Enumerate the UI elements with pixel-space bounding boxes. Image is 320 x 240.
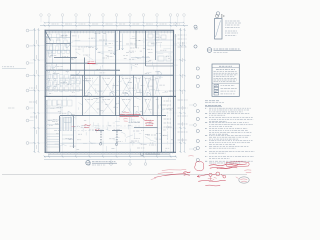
interior wall vertical x59 stair [59, 116, 61, 153]
exterior wall top [45, 30, 174, 32]
general notes numbered paragraphs [205, 108, 254, 163]
bottom dimension strings [44, 156, 177, 160]
interior wall vertical x157 lower corridor [157, 96, 159, 152]
upper-middle partition x103b [102, 35, 104, 63]
second detail title below plan right [140, 152, 160, 156]
red markup tick near plan corner [189, 155, 194, 157]
legend box title [212, 66, 239, 69]
red markup flow sketch cluster [197, 172, 226, 182]
interior wall horizontal y96 rooms mid [45, 95, 177, 97]
interior wall vertical x153 rooms [152, 75, 154, 115]
interior wall horizontal y127 partial [134, 126, 158, 128]
interior wall vertical x155 upper [155, 30, 157, 60]
column grid lines horizontal [30, 30, 186, 143]
corner diagonal brace top-left [45, 31, 50, 41]
stair labels right lower block [164, 101, 172, 145]
grid bubbles left column [26, 29, 33, 144]
red markup boxed note top right [226, 162, 249, 167]
upper-right partition y40 [146, 39, 174, 41]
plumbing fixtures cluster top-left [48, 34, 70, 56]
north arrow symbol top right [215, 14, 224, 17]
interior wall horizontal y115 rooms bottom [60, 115, 166, 117]
grid bubbles top row [40, 14, 186, 23]
general notes heading [205, 106, 222, 107]
interior wall vertical x119 rooms [119, 75, 121, 115]
column grid lines vertical [49, 17, 171, 156]
door swing X marks in room band [85, 77, 160, 114]
grid bubbles bottom row [88, 159, 147, 165]
red markup dashes to right edge [245, 170, 252, 173]
exterior wall bottom [45, 152, 177, 154]
red markup faint tick x72 y126 [72, 125, 75, 128]
interior wall horizontal y75 rooms top [71, 74, 174, 76]
shelf grid left room [49, 75, 80, 92]
interior wall vertical x115 [115, 30, 117, 116]
upper-left partition y50 [46, 50, 71, 52]
column circle B [115, 143, 117, 145]
leader arrows in plan [62, 49, 171, 146]
upper-left partition y37 [46, 37, 71, 39]
red markup underline in plan upper-middle [88, 62, 96, 64]
interior wall horizontal y63 [46, 62, 174, 64]
legend box separator [212, 82, 239, 84]
door swing arcs [52, 44, 162, 116]
sheet background [0, 0, 256, 197]
door detail notes text [225, 21, 241, 36]
legend symbol rows [214, 84, 237, 95]
keyed note circles beside notes column [196, 109, 199, 161]
text clutter right of center upper [78, 40, 139, 55]
labels lower right quadrant [131, 122, 156, 148]
red markup squiggle x84 y125 [84, 125, 91, 128]
dashed overhead line y133 [60, 129, 96, 131]
keyed note circles beside legend box [196, 67, 199, 88]
interior wall horizontal y90 partial [46, 89, 83, 91]
door elevation detail frame [215, 19, 223, 40]
window mullion ticks along left wall [44, 33, 47, 146]
partition y57 right of center [131, 57, 150, 59]
red markup row mid right [217, 167, 232, 170]
upper-left partition x52 [52, 44, 54, 64]
upper-right partition y52 [156, 51, 174, 53]
drawing title below plan [86, 161, 117, 165]
right dimension strings [180, 28, 186, 153]
callout texts right margin of plan [178, 100, 188, 140]
interior wall vertical x82 rooms [82, 75, 84, 115]
top-right equipment rects [148, 34, 171, 61]
interior wall vertical x142 rooms [142, 75, 144, 115]
red markup notes cluster center [120, 112, 141, 117]
faint crosswise line y143 [60, 143, 173, 145]
annotation texture marks across plan [47, 34, 177, 155]
keyed note circles upper right margin [194, 25, 197, 48]
sheet bottom border line [2, 173, 247, 175]
interior wall vertical x133 rooms [133, 75, 135, 115]
casework lower-left [47, 100, 72, 113]
interior wall vertical x119 upper partial [119, 30, 121, 50]
dashed column line A [100, 131, 102, 143]
interior wall vertical x73 stair [73, 116, 75, 148]
window mullion ticks along bottom wall [47, 151, 173, 154]
grid bubbles right column [189, 27, 197, 150]
interior wall vertical x161 lower [161, 96, 163, 152]
legend box paragraph text [214, 72, 238, 82]
red markup bottom small row [206, 184, 221, 187]
leader arrows below top wall [96, 34, 124, 56]
red markup handwriting row over notes [209, 164, 238, 168]
red markup small marks at plan bottom rooms [124, 119, 128, 122]
red markup lone word left [184, 172, 191, 175]
callout texts upper right margin [174, 35, 187, 47]
red markup small tick near x95 y130 [95, 129, 99, 132]
interior wall vertical x145 upper [145, 30, 147, 66]
column circle A [99, 143, 101, 145]
vertical dim text marks right [181, 42, 183, 142]
interior wall horizontal y70 [46, 69, 120, 71]
left margin callout texts [2, 67, 37, 117]
top dimension strings [40, 22, 188, 27]
red markup right oval and ticks [236, 177, 249, 183]
interior wall vertical x84 [84, 58, 86, 97]
stair cluster extra lines [47, 118, 74, 144]
interior wall horizontal y43 [46, 43, 71, 45]
exterior wall left [45, 30, 47, 153]
interior wall vertical x100 rooms [99, 75, 101, 115]
red markup long strike lines [151, 169, 186, 179]
upper-middle partition y66 [146, 65, 174, 67]
interior wall horizontal y57 [54, 57, 77, 59]
red markup row under cluster [199, 180, 226, 181]
wall legend footnote lines [205, 101, 224, 103]
exterior wall right [174, 30, 176, 153]
upper-left partition x60 [60, 44, 62, 58]
dashed column line B [116, 131, 118, 143]
vertical dim text marks left [35, 40, 37, 149]
interior wall horizontal y133 beams [95, 129, 122, 131]
enlarged plan title with detail circle [207, 48, 241, 53]
toilet room fixtures left [47, 66, 81, 89]
dashed overhead line y126 [77, 125, 140, 127]
grid bubble above door detail [216, 12, 220, 19]
upper-middle room shelving lines [72, 41, 115, 60]
red markup scribble right of cluster [141, 117, 154, 126]
red markup cloud left of notes column [195, 161, 204, 170]
stair flight lines bottom-left [47, 117, 72, 147]
upper-middle partition x95 [95, 30, 97, 63]
interior wall vertical x136 upper [135, 30, 137, 48]
left dimension strings [34, 28, 40, 153]
interior wall vertical x70 [70, 30, 72, 71]
window mullion ticks along top wall [47, 31, 171, 33]
legend box frame [212, 64, 239, 96]
